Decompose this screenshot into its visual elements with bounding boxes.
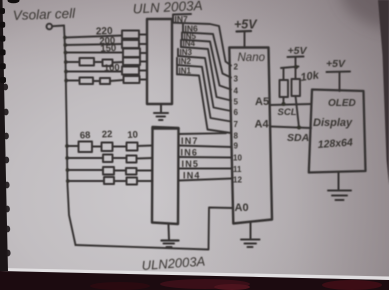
svg-text:A4: A4 (255, 119, 270, 131)
svg-text:22: 22 (102, 129, 113, 141)
resistor 100 (122, 67, 139, 75)
ground below U2 (162, 225, 179, 247)
value label 22 (102, 129, 113, 141)
right paper edge dark sliver (378, 0, 389, 185)
value label 68 (80, 130, 91, 142)
resistor row B4 a (104, 177, 114, 184)
wire row B4 (68, 180, 104, 182)
svg-text:11: 11 (233, 165, 242, 174)
svg-text:Vsolar cell: Vsolar cell (13, 6, 77, 23)
paper bottom edge highlight (0, 268, 389, 280)
ladder top line above IN7 (U2) (179, 132, 227, 135)
wire IN7 to Nano pin2 (173, 23, 231, 66)
resistor R pullup SCL 10k (283, 68, 285, 80)
label V solar cell (13, 6, 77, 23)
pin A5 label (255, 96, 269, 108)
value label 100 (104, 62, 120, 74)
wire row5 (66, 71, 122, 73)
svg-text:IN5: IN5 (182, 159, 200, 169)
wire IN4 to Nano pin5 (181, 47, 231, 101)
svg-text:SDA: SDA (287, 132, 309, 144)
svg-text:6: 6 (234, 108, 239, 117)
resistor 10 (row B1) (127, 143, 138, 151)
rail joining pullup tops (281, 67, 299, 69)
svg-text:10: 10 (127, 129, 138, 141)
svg-text:IN6: IN6 (181, 147, 199, 157)
svg-text:128x64: 128x64 (317, 137, 353, 151)
solar cell terminal node (47, 24, 53, 30)
svg-text:IN7: IN7 (181, 136, 199, 146)
svg-text:5: 5 (234, 98, 239, 107)
svg-text:OLED: OLED (328, 98, 356, 109)
resistor row4 a (80, 58, 95, 66)
wire row3 (66, 52, 124, 54)
wire IN4 U2 to Nano pin12 (179, 179, 232, 181)
pin label IN4 (U2) (183, 171, 201, 181)
resistor row B4 b (127, 178, 138, 185)
wire IN5 U2 to Nano pin11 (179, 168, 232, 170)
pin label IN6 (U1) (183, 23, 198, 33)
MCU U3 Arduino Nano body (229, 48, 272, 224)
wire SDA from A4 to OLED (271, 127, 312, 129)
svg-text:+5V: +5V (234, 18, 258, 32)
svg-text:9: 9 (234, 142, 239, 151)
svg-text:68: 68 (80, 130, 91, 142)
pin label IN2 (U1) (177, 57, 192, 66)
pin numbers (233, 63, 242, 185)
resistor row B2 a (103, 155, 113, 163)
wire row B3 (68, 169, 104, 171)
pin label IN4 (U1) (181, 39, 196, 48)
pin label IN5 (U1) (182, 32, 197, 41)
ground below U1 (154, 104, 168, 120)
wire row4 (66, 61, 80, 63)
pin A4 label (255, 119, 270, 131)
resistor 150 (123, 49, 140, 58)
chip U1 body (147, 19, 172, 104)
junction dots on bus (63, 36, 70, 183)
resistor row6 c (124, 76, 140, 83)
svg-text:Display: Display (313, 117, 353, 129)
svg-text:3: 3 (234, 75, 239, 84)
ground below OLED (328, 172, 351, 200)
svg-text:7: 7 (234, 120, 239, 129)
net label SCL (278, 107, 297, 118)
wire A0 loop to solar bus (76, 208, 233, 250)
wire IN2 to Nano pin7 (177, 65, 231, 122)
+5V supply over pullups (288, 45, 308, 57)
+5V supply over Nano (234, 18, 258, 32)
value label 10k (300, 69, 321, 84)
value label 220 (96, 26, 113, 38)
wire IN5 to Nano pin4 (182, 40, 231, 90)
spiral notebook dark left edge (0, 0, 8, 271)
wire from terminal to left bus (53, 25, 64, 28)
svg-text:A5: A5 (255, 96, 269, 108)
wire IN7 U2 to Nano pin9 (179, 146, 232, 148)
wire IN1 to Nano pin8 (177, 74, 231, 133)
svg-text:12: 12 (233, 176, 242, 185)
wire SCL from A5 to OLED (271, 104, 312, 105)
resistor row4 c (123, 58, 140, 66)
svg-text:SCL: SCL (278, 107, 297, 118)
wire row B1 (67, 145, 79, 147)
svg-text:+5V: +5V (288, 45, 308, 57)
value label 200 (99, 35, 115, 47)
pin A0 label (235, 202, 249, 214)
resistor row B2 b (127, 156, 137, 163)
wire row1 (65, 36, 122, 38)
svg-text:8: 8 (234, 132, 239, 141)
resistor 68 (79, 142, 93, 153)
resistor 220 (122, 31, 139, 39)
pin label IN3 (U1) (178, 48, 193, 57)
resistor row4 b (103, 60, 113, 67)
wire row6 (66, 80, 79, 82)
svg-text:10: 10 (233, 154, 242, 163)
pin label IN7 (U2) (181, 136, 199, 146)
resistor row B3 a (103, 167, 114, 175)
wire row B2 (67, 157, 103, 159)
svg-text:2: 2 (234, 63, 239, 72)
display module OLED body (309, 90, 366, 173)
wire IN6 to Nano pin3 (183, 32, 231, 77)
value label 150 (100, 43, 116, 55)
chip U1 ULN2003A label (132, 0, 202, 16)
net label SDA (287, 132, 309, 144)
ground below Nano (241, 222, 260, 248)
pin label IN7 (U1) (173, 14, 191, 24)
resistor R pullup SDA 10k (295, 67, 297, 80)
spiral binding notches (0, 0, 20, 83)
pin label IN5 (U2) (182, 159, 200, 169)
left bus wire (solar cell positive rail) (64, 26, 76, 246)
value label 10 (127, 129, 138, 141)
svg-text:A0: A0 (235, 202, 249, 214)
chip U2 ULN2003A bottom label (141, 254, 206, 273)
resistor 200 (122, 40, 139, 48)
resistor 22 (row B1) (102, 143, 113, 152)
chip U2 ULN2003A body (152, 127, 179, 224)
resistor row6 a (80, 78, 94, 85)
wire IN3 to Nano pin6 (178, 56, 231, 111)
wire row2 (65, 44, 122, 45)
svg-text:Nano: Nano (238, 52, 266, 64)
resistor row B3 b (126, 168, 137, 175)
pin label IN6 (U2) (181, 147, 199, 157)
dark table below paper bottom edge (0, 271, 389, 290)
+5V supply over OLED (326, 58, 346, 70)
resistor row6 b (100, 78, 110, 84)
svg-text:+5V: +5V (326, 58, 346, 70)
wire IN6 U2 to Nano pin10 (179, 156, 232, 159)
svg-text:4: 4 (234, 87, 239, 96)
top right dark corner (340, 0, 389, 30)
pin label IN1 (U1) (177, 67, 192, 76)
